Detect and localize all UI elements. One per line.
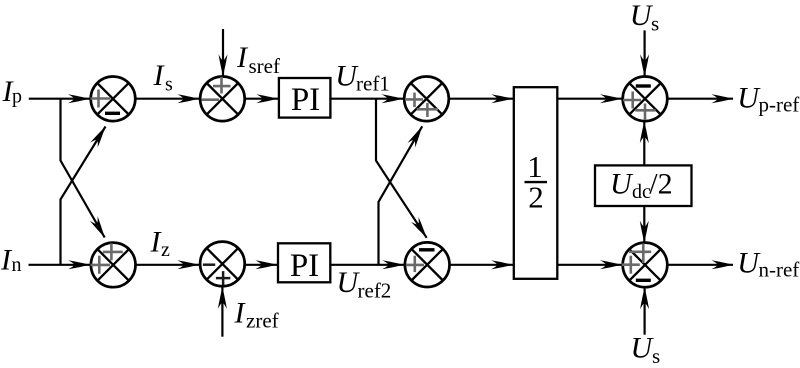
wire PI1 to S5 (330, 94, 404, 103)
block Udc/2 (595, 165, 692, 206)
wire Us top input (640, 30, 649, 76)
label U_s bottom (631, 331, 661, 368)
wire Ip input (29, 94, 91, 103)
summing junction S3 (Is vs Isref) (200, 77, 245, 122)
block 1/2 (514, 87, 558, 279)
svg-text:p: p (12, 85, 22, 107)
wire Udc/2 down to S8 (640, 206, 649, 243)
wire Us bottom input (640, 287, 649, 335)
wire S6 to half block (450, 260, 514, 269)
summing junction S5 (Uref1 + Uref2) (404, 77, 449, 122)
summing junction S8 (output n) (622, 243, 668, 288)
svg-text:PI: PI (290, 248, 319, 284)
wire Udc/2 up to S7 (640, 121, 649, 165)
summing junction S6 (Uref2 - Uref1) (405, 242, 450, 287)
wire Isref input (219, 29, 228, 76)
wire In input (29, 260, 91, 269)
wire half to S7 (557, 94, 622, 103)
wire Uref2 cross branch up (379, 124, 427, 265)
wire Ip cross branch down (61, 99, 109, 240)
svg-text:sref: sref (249, 54, 280, 78)
label U_s top (630, 0, 659, 36)
block PI2 (278, 243, 330, 283)
svg-text:z: z (161, 239, 170, 261)
svg-text:/2: /2 (649, 168, 672, 201)
wire Izref input (218, 287, 227, 337)
svg-text:U: U (631, 331, 655, 364)
label I_sref (236, 41, 280, 78)
wire Uref1 cross branch down (376, 99, 430, 241)
svg-text:zref: zref (246, 308, 279, 332)
wire half to S8 (557, 260, 622, 269)
wire In cross branch up (61, 124, 110, 265)
svg-text:ref2: ref2 (358, 279, 392, 303)
wire output Up-ref (667, 94, 733, 103)
label I_z (150, 225, 171, 260)
block PI1 (279, 78, 331, 118)
svg-text:U: U (610, 168, 634, 201)
wire S4 to PI2 (245, 260, 278, 269)
wire S5 to half block (449, 94, 514, 103)
svg-text:PI: PI (291, 82, 320, 118)
wire S2 to S4 (136, 260, 201, 269)
svg-text:ref1: ref1 (356, 71, 390, 95)
label U_ref1 (335, 59, 390, 95)
label I_zref (234, 297, 279, 333)
label I_p (2, 75, 23, 108)
label U_n-ref (737, 247, 799, 282)
svg-text:n-ref: n-ref (759, 258, 800, 282)
label U_ref2 (337, 266, 392, 303)
summing junction S7 (output p) (623, 77, 668, 122)
label I_s (153, 59, 174, 96)
summing junction S4 (Iz vs Izref) (200, 242, 245, 287)
svg-text:s: s (651, 12, 659, 36)
svg-text:n: n (12, 254, 22, 276)
label U_p-ref (737, 82, 799, 117)
svg-text:p-ref: p-ref (759, 93, 800, 117)
svg-text:dc: dc (632, 181, 651, 203)
wire S3 to PI1 (245, 94, 279, 103)
wire output Un-ref (667, 260, 733, 269)
summing junction S2 (In + Ip) (91, 243, 136, 288)
wire S1 to S3 (135, 94, 200, 103)
summing junction S1 (Ip - In) (91, 77, 136, 122)
svg-text:2: 2 (528, 179, 544, 214)
svg-text:s: s (165, 74, 173, 96)
svg-text:s: s (652, 344, 660, 368)
wire PI2 to S6 (330, 260, 405, 269)
label I_n (0, 244, 22, 277)
